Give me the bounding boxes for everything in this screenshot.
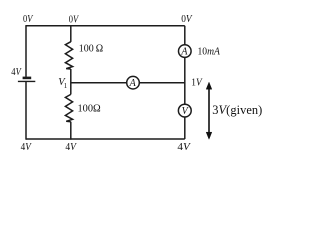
- svg-text:4V: 4V: [65, 142, 77, 153]
- voltmeter U3 circle: [178, 104, 191, 117]
- battery 4V long plate: [18, 80, 35, 82]
- svg-text:0V: 0V: [181, 14, 193, 25]
- ammeter U2 circle (right branch, 10mA): [179, 45, 192, 58]
- wire middle branch top: [70, 26, 72, 42]
- wire left branch upper: [25, 25, 27, 77]
- svg-text:4V: 4V: [11, 67, 22, 78]
- svg-text:100 Ω: 100 Ω: [79, 43, 103, 54]
- svg-text:A: A: [129, 78, 137, 89]
- svg-text:4V: 4V: [21, 142, 33, 153]
- ammeter U1 circle (middle wire): [127, 76, 140, 89]
- resistor R2 100ohm zigzag: [65, 94, 72, 121]
- dimension arrow 3V double-headed: [206, 82, 212, 139]
- svg-text:0V: 0V: [23, 14, 34, 25]
- svg-text:1V: 1V: [191, 77, 203, 88]
- svg-text:100Ω: 100Ω: [78, 103, 101, 114]
- wire middle horizontal V1 to right branch: [71, 82, 185, 84]
- wire middle branch bottom: [70, 122, 72, 140]
- svg-text:3V(given): 3V(given): [212, 103, 262, 117]
- svg-text:4V: 4V: [177, 141, 191, 153]
- battery 4V short plate: [23, 77, 32, 80]
- wire top rail 0V: [26, 25, 185, 27]
- svg-text:10mA: 10mA: [198, 46, 221, 57]
- wire bottom rail 4V: [26, 138, 185, 140]
- svg-text:1: 1: [64, 82, 68, 90]
- svg-text:A: A: [180, 47, 188, 58]
- resistor R1 100ohm zigzag: [65, 42, 72, 69]
- wire right branch: [184, 26, 186, 139]
- svg-text:0V: 0V: [69, 14, 80, 25]
- wire middle branch mid (node V1): [70, 69, 72, 94]
- wire left branch lower: [25, 81, 27, 139]
